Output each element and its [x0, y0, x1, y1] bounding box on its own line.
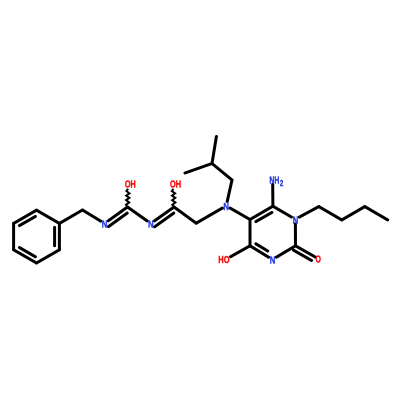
wavy bond C-OH (right)	[172, 189, 176, 207]
benzene double bond C4-C5	[20, 248, 36, 257]
bond CH2-N	[83, 210, 101, 221]
svg-text:2: 2	[280, 179, 284, 188]
bond C-CH2	[174, 207, 196, 223]
pyrimidine double bond C5=C6	[256, 212, 272, 221]
benzene ring	[14, 210, 60, 263]
bond CH2-CH (isobutyl)	[212, 164, 232, 181]
benzene double bond C2-C3	[53, 227, 56, 245]
bond CH-CH3 (isobutyl methyl up)	[212, 137, 216, 164]
bond C4-OH	[231, 246, 250, 257]
bond CH-CH3 (isobutyl methyl left)	[185, 164, 212, 174]
bond phenyl-CH2 (benzyl)	[59, 210, 82, 223]
bond butyl CH2-CH2 (2)	[342, 207, 365, 220]
pyrimidine double bond N3=C4	[256, 244, 268, 251]
pyrimidine ring	[250, 206, 296, 257]
svg-text:NH: NH	[269, 175, 279, 186]
bond butyl CH2-CH2	[319, 207, 342, 220]
bond CH2-N (tertiary amine)	[196, 208, 222, 223]
double bond C2=O	[296, 246, 316, 257]
svg-text:OH: OH	[170, 180, 181, 191]
svg-text:OH: OH	[125, 180, 136, 191]
svg-text:N: N	[148, 220, 154, 231]
benzene double bond C6-C1	[20, 216, 36, 225]
svg-text:N: N	[102, 220, 108, 231]
svg-text:N: N	[223, 202, 229, 213]
svg-text:HO: HO	[218, 255, 229, 266]
bond C6-NH2	[271, 184, 274, 206]
bond butyl CH2-CH3	[365, 207, 388, 220]
double bond N=C (second amidine)	[155, 207, 175, 221]
double bond N=C (amidine)	[108, 207, 127, 221]
bond N-C5 (to pyrimidine)	[230, 208, 250, 219]
bond N-CH2 (isobutyl)	[227, 180, 232, 202]
wavy bond C-OH (left)	[126, 189, 130, 207]
svg-text:N: N	[293, 215, 299, 226]
bond N1-CH2 (butyl)	[299, 207, 318, 218]
svg-text:O: O	[316, 255, 322, 266]
bond C-N (center)	[128, 207, 148, 221]
svg-text:N: N	[270, 256, 276, 267]
